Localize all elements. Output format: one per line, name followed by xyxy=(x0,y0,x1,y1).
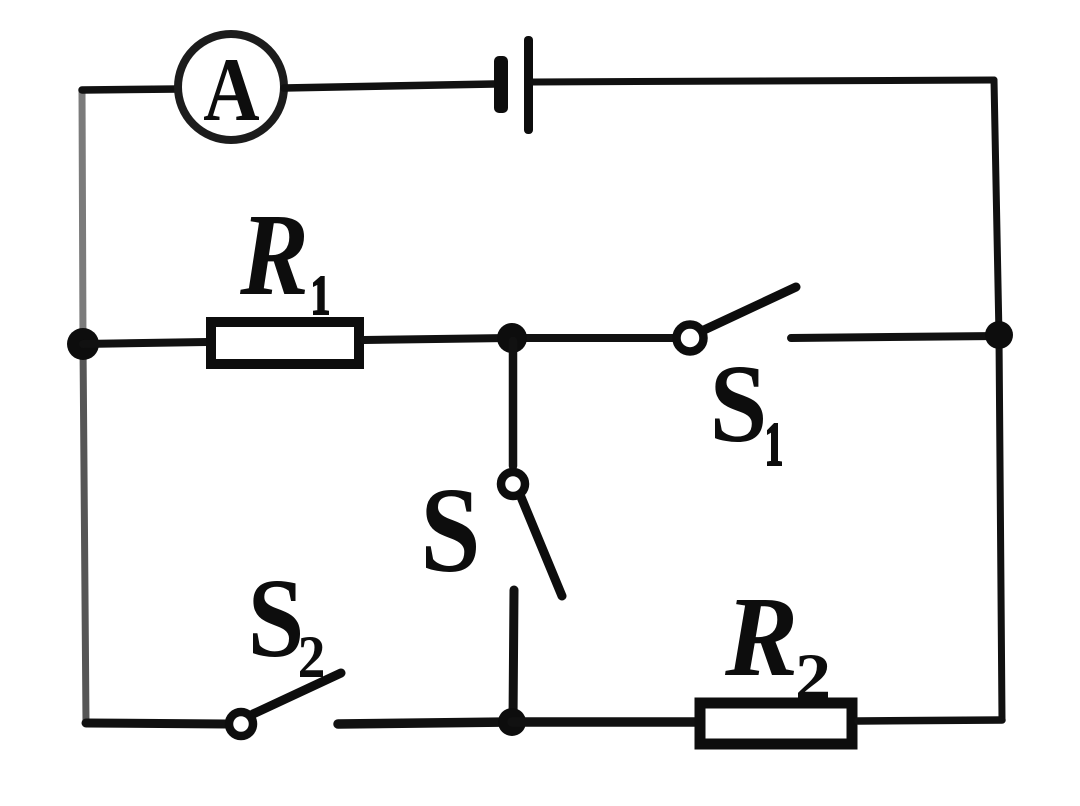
node left junction xyxy=(67,328,99,360)
label S1 xyxy=(715,367,781,465)
wire left junction to R1 xyxy=(83,342,207,344)
wire S2 to bottom junction xyxy=(338,722,512,724)
wire ammeter to battery xyxy=(284,84,494,88)
node bottom junction xyxy=(498,708,526,736)
wire top left segment xyxy=(82,89,179,90)
node middle junction xyxy=(497,323,527,353)
wire left vertical lower xyxy=(83,344,86,723)
label R2 xyxy=(725,600,828,699)
label S xyxy=(426,490,476,572)
resistor R1 xyxy=(211,322,359,364)
ammeter A xyxy=(178,34,284,140)
wire R1 to S1 xyxy=(364,338,673,340)
wire left vertical upper xyxy=(82,90,83,344)
switch S2 xyxy=(229,673,341,736)
wire bottom junction to R2 xyxy=(512,717,695,727)
switch S xyxy=(501,472,562,596)
node right junction xyxy=(985,321,1013,349)
wire battery to top right corner xyxy=(533,80,994,82)
battery xyxy=(494,36,533,134)
wire switch S down to bottom junction xyxy=(513,590,514,722)
label S2 xyxy=(253,581,323,677)
wire R2 to bottom right corner xyxy=(858,720,1002,721)
wire bottom left segment xyxy=(86,723,226,724)
switch S1 xyxy=(677,287,797,352)
wire middle junction down to switch S xyxy=(509,341,518,466)
wire right vertical xyxy=(994,80,1002,720)
label R1 xyxy=(240,217,328,314)
wire S1 to right vertical xyxy=(791,336,999,338)
resistor R2 xyxy=(700,703,852,744)
